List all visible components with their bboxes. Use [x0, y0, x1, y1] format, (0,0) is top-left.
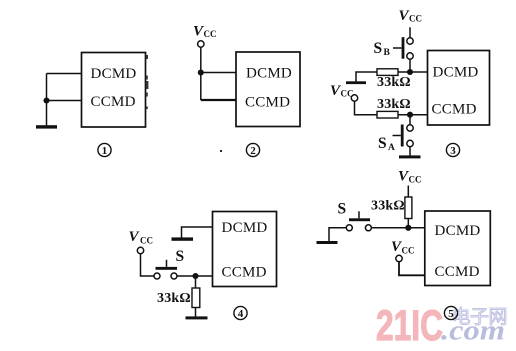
switch S contact right	[171, 273, 177, 279]
switch S contact right	[365, 225, 371, 231]
label (4)	[234, 306, 247, 320]
Vcc label	[129, 229, 154, 245]
wire resistor to ground	[195, 308, 197, 317]
svg-text:S: S	[378, 135, 387, 152]
svg-text:5: 5	[448, 308, 454, 320]
switch SB contact bottom	[407, 53, 413, 59]
svg-text:CC: CC	[409, 14, 422, 24]
svg-text:CCMD: CCMD	[91, 94, 136, 110]
wire DCMD pin to left vertical	[47, 73, 82, 75]
svg-text:电子网: 电子网	[452, 306, 508, 328]
svg-text:1: 1	[102, 145, 108, 157]
svg-text:CC: CC	[140, 236, 153, 246]
switch S bar	[156, 267, 178, 270]
IC box U1	[82, 53, 146, 128]
svg-text:33kΩ: 33kΩ	[157, 291, 191, 306]
switch S contact left	[154, 273, 160, 279]
IC box U3	[428, 51, 490, 126]
wire DCMD to ground corner	[182, 227, 213, 238]
wire switch to box DCMD	[371, 227, 424, 229]
switch SB bar	[402, 37, 405, 59]
IC box U4	[213, 212, 277, 287]
svg-text:DCMD: DCMD	[435, 223, 481, 239]
wire Vcc to resistor 2	[355, 101, 378, 115]
wire switch to ground corner	[329, 228, 346, 241]
wire left of resistor to ground corner	[356, 72, 377, 82]
switch S stem	[166, 260, 168, 267]
svg-text:DCMD: DCMD	[246, 66, 292, 82]
wire to CCMD	[201, 99, 236, 101]
wire resistor to DCMD line	[407, 219, 409, 228]
switch SB label	[374, 40, 391, 58]
ground left	[317, 241, 338, 244]
svg-text:CCMD: CCMD	[435, 264, 480, 280]
wire Vcc stub	[409, 27, 411, 38]
wire SA to ground	[409, 147, 411, 156]
Vcc terminal lower	[396, 255, 402, 261]
svg-text:DCMD: DCMD	[433, 65, 479, 81]
wire resistor to box CCMD	[398, 114, 428, 116]
switch SA stem	[393, 135, 401, 137]
resistor 33k upper	[377, 69, 398, 76]
wire switch to box CCMD	[177, 275, 213, 277]
switch SA label	[378, 135, 395, 153]
wire junction down to SA	[409, 115, 411, 125]
wire Vcc to resistor	[407, 186, 409, 198]
Vcc label	[193, 23, 217, 39]
label (1)	[98, 143, 111, 157]
IC box U2	[236, 52, 300, 127]
svg-text:CCMD: CCMD	[245, 95, 290, 111]
svg-text:CC: CC	[409, 175, 422, 185]
switch SB stem	[393, 47, 402, 49]
wire resistor to box DCMD	[398, 71, 428, 73]
switch S stem	[358, 211, 360, 218]
svg-text:A: A	[388, 143, 395, 153]
switch SA contact bottom	[407, 140, 413, 146]
Vcc label top	[398, 168, 422, 184]
svg-text:CCMD: CCMD	[222, 265, 267, 281]
wire SB to DCMD line	[409, 59, 411, 72]
ground SA	[399, 155, 421, 158]
svg-text:S: S	[176, 248, 185, 265]
ground DCMD	[172, 237, 194, 240]
node junction dot CCMD	[407, 112, 413, 118]
svg-text:33kΩ: 33kΩ	[377, 97, 411, 112]
wire Vcc to switch	[141, 254, 155, 276]
wire Vcc down	[200, 47, 202, 100]
scan ghost ticks on box right edge	[146, 55, 149, 109]
svg-text:33kΩ: 33kΩ	[377, 75, 411, 90]
Vcc terminal	[198, 41, 204, 47]
node junction dot	[405, 225, 411, 231]
svg-text:4: 4	[238, 308, 244, 320]
svg-text:CCMD: CCMD	[432, 102, 477, 118]
svg-text:CC: CC	[204, 29, 217, 39]
svg-text:DCMD: DCMD	[91, 66, 137, 82]
wire vertical down to ground	[46, 74, 48, 127]
svg-text:S: S	[338, 200, 347, 217]
svg-text:2: 2	[250, 145, 256, 157]
node junction dot	[43, 97, 49, 103]
switch SA bar	[401, 125, 404, 147]
Vcc label left	[330, 83, 354, 99]
wire junction down to resistor	[195, 276, 197, 288]
IC box U5	[425, 211, 491, 286]
node junction dot DCMD	[407, 69, 413, 75]
Vcc label lower	[391, 239, 415, 255]
label (3)	[446, 143, 459, 157]
stray dot	[220, 150, 222, 152]
ground resistor	[186, 316, 208, 319]
Vcc label top	[399, 8, 423, 24]
wire Vcc to box CCMD	[399, 262, 425, 276]
ground	[36, 125, 57, 128]
node junction dot	[192, 273, 198, 279]
svg-text:3: 3	[450, 145, 456, 157]
label (5)	[444, 306, 457, 320]
switch S contact left	[346, 225, 352, 231]
label (2)	[246, 143, 259, 157]
switch SA contact top	[407, 125, 413, 131]
svg-text:DCMD: DCMD	[222, 220, 268, 236]
Vcc terminal	[137, 247, 143, 253]
switch S bar	[349, 218, 370, 221]
svg-text:CC: CC	[402, 245, 415, 255]
switch SB contact top	[407, 38, 413, 44]
ground upper left	[346, 81, 366, 84]
svg-text:B: B	[384, 48, 391, 58]
resistor 33k lower	[377, 111, 398, 118]
wire to DCMD	[201, 72, 236, 74]
svg-text:33kΩ: 33kΩ	[371, 199, 405, 214]
Vcc terminal left	[351, 95, 357, 101]
svg-text:S: S	[374, 40, 383, 57]
resistor 33k vertical	[192, 288, 200, 308]
node junction dot	[198, 69, 204, 75]
svg-text:21IC: 21IC	[376, 302, 443, 350]
resistor 33k vertical	[405, 197, 412, 219]
wire CCMD pin to left vertical	[47, 100, 82, 102]
